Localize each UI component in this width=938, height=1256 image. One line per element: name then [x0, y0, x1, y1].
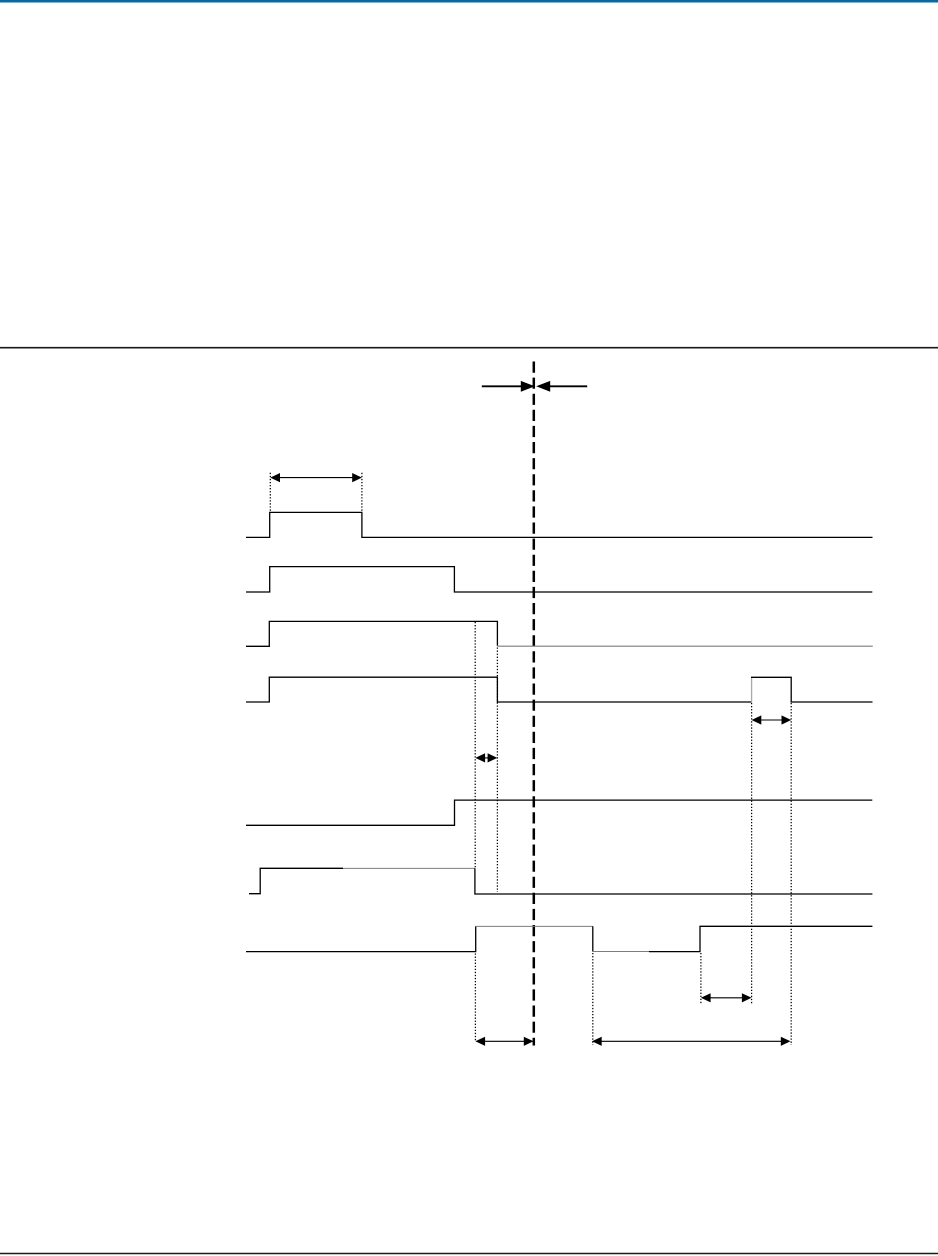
dimension arrow t1 — [270, 473, 362, 482]
dimension arrow t6 — [592, 1037, 791, 1046]
waveform S7 low mid and rise and high2 — [649, 926, 872, 951]
dotted guide x=497 — [496, 648, 498, 893]
pulse top and right edge — [751, 677, 873, 702]
waveform S3 — [246, 621, 497, 646]
waveform S7 fall — [592, 926, 594, 951]
waveform S7 low left and rise — [246, 926, 476, 951]
dotted guide x=791 — [790, 703, 792, 1045]
top rule — [0, 347, 938, 349]
waveform S2 — [246, 567, 872, 592]
dotted guide x=475 lower — [474, 954, 476, 1042]
top-left thick arrow — [482, 381, 535, 392]
pulse gray left edge — [751, 678, 753, 702]
dimension arrow t4 — [701, 993, 752, 1002]
waveform S6 fall and low — [475, 868, 873, 894]
waveform S7 gray low mid — [593, 951, 649, 953]
top-right thick arrow — [536, 381, 587, 392]
waveform S3 gray tail — [497, 645, 872, 647]
header bar — [0, 0, 938, 3]
dotted guide x=475 upper — [474, 622, 476, 868]
dotted guide x=701 — [700, 953, 702, 1004]
dimension arrow t5 — [475, 1037, 533, 1046]
dashed reference line — [533, 362, 536, 1046]
dimension arrow t3 short — [475, 753, 497, 762]
waveform S6 gray high — [343, 867, 475, 869]
waveform S5 — [246, 800, 872, 825]
waveform S7 gray high1 — [476, 925, 593, 927]
waveform S6 — [249, 868, 343, 893]
waveform S1 — [246, 512, 873, 537]
dotted guide x=593 — [592, 953, 594, 1045]
dotted guide x=362 — [361, 473, 363, 512]
waveform S4 — [246, 677, 752, 702]
dotted guide x=270 — [269, 473, 271, 512]
bottom rule — [0, 1253, 938, 1255]
dotted guide x=752 — [751, 703, 753, 1004]
dimension arrow t2 below pulse — [752, 715, 792, 724]
